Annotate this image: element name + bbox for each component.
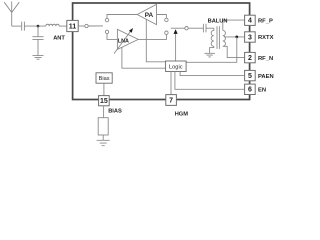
wire LNA output to SW2 <box>138 35 166 40</box>
wire Logic to PAEN pin 5 <box>180 72 245 76</box>
svg-text:EN: EN <box>258 88 266 94</box>
wire Logic to pin 7 HGM <box>170 72 172 95</box>
pin 5 box <box>245 70 256 80</box>
wire balun secondary to RF_P pin 4 <box>223 20 245 30</box>
svg-text:PAEN: PAEN <box>258 74 274 80</box>
wire RX throw to LNA input <box>107 34 117 40</box>
svg-text:BALUN: BALUN <box>208 18 228 24</box>
switch SW2 TX throw contact <box>165 18 168 21</box>
wire RXTX to Logic <box>186 37 237 62</box>
balun T1 core <box>217 26 219 49</box>
pin 11 box <box>67 20 78 31</box>
pin 6 box <box>245 84 256 94</box>
wire C1 to L1 <box>24 25 45 27</box>
wire R1 to ground <box>102 135 104 140</box>
balun T1 secondary winding <box>223 30 226 46</box>
ground (balun primary) <box>204 53 215 57</box>
node junction ANT <box>37 25 40 28</box>
wire C3 to balun primary <box>206 27 214 29</box>
PA U3 <box>137 4 156 24</box>
svg-text:LNA: LNA <box>118 38 129 44</box>
svg-text:Logic: Logic <box>169 65 183 71</box>
wire Logic to EN pin 6 <box>175 72 245 90</box>
svg-text:RXTX: RXTX <box>258 35 274 41</box>
svg-text:5: 5 <box>248 73 252 80</box>
wire PA input from switch SW2 <box>157 15 167 19</box>
svg-text:ANT: ANT <box>53 36 65 42</box>
switch SW1 pole contact <box>85 24 88 27</box>
svg-text:RF_N: RF_N <box>258 56 273 62</box>
resistor R1 <box>98 118 108 135</box>
pin 2 box <box>245 52 256 62</box>
svg-text:6: 6 <box>248 87 252 94</box>
ground (bias resistor) <box>97 140 110 145</box>
node RXTX junction <box>235 36 238 39</box>
switch SW2 pole contact <box>185 27 188 30</box>
switch control arrow from Logic <box>175 34 177 62</box>
svg-text:Bias: Bias <box>99 76 110 82</box>
wire SW2 pole to C3 <box>188 27 203 29</box>
LNA gain arrow <box>114 31 131 53</box>
svg-text:3: 3 <box>248 34 252 41</box>
svg-text:7: 7 <box>169 98 173 105</box>
capacitor C3 <box>203 24 206 33</box>
pin 3 box <box>245 32 256 42</box>
wire TX throw to PA output <box>107 15 137 19</box>
wire balun center tap to RXTX pin 3 <box>224 36 245 38</box>
wire Bias to pin 15 <box>103 83 105 95</box>
switch SW2 RX throw contact <box>165 31 168 34</box>
svg-text:15: 15 <box>100 98 108 105</box>
inductor L1 <box>46 24 59 26</box>
svg-text:HGM: HGM <box>175 112 189 118</box>
switch SW2 arm <box>171 27 185 29</box>
wire balun primary to ground <box>210 46 214 53</box>
Bias block <box>96 73 112 83</box>
pin 4 box <box>245 15 256 25</box>
ground (antenna shunt) <box>33 56 44 60</box>
switch SW1 TX throw contact <box>105 18 108 21</box>
svg-text:BIAS: BIAS <box>108 109 122 115</box>
wire LNA gain control to Logic <box>122 47 166 68</box>
svg-text:2: 2 <box>248 55 252 62</box>
pin 15 box <box>99 96 110 106</box>
wire pin 11 to switch pole <box>78 25 85 27</box>
wire pin 15 to resistor R1 <box>103 106 105 118</box>
Logic block <box>166 61 187 72</box>
wire L1 to pin 11 <box>59 25 67 27</box>
balun T1 primary winding <box>211 28 214 46</box>
svg-text:PA: PA <box>145 12 154 19</box>
svg-text:4: 4 <box>248 18 252 25</box>
capacitor C2 shunt <box>32 26 43 55</box>
capacitor C1 <box>22 22 25 31</box>
wire PA control to Logic <box>146 19 165 62</box>
pin 7 box <box>166 95 177 106</box>
wire antenna to C1 <box>12 25 22 27</box>
wire balun secondary to RF_N pin 2 <box>223 46 245 57</box>
switch SW1 RX throw contact <box>105 30 108 33</box>
LNA U2 <box>117 29 138 49</box>
svg-text:11: 11 <box>69 22 77 31</box>
switch SW1 arm <box>88 25 103 27</box>
IC outline U1 <box>73 3 250 100</box>
svg-text:RF_P: RF_P <box>258 18 273 24</box>
antenna <box>4 2 19 27</box>
